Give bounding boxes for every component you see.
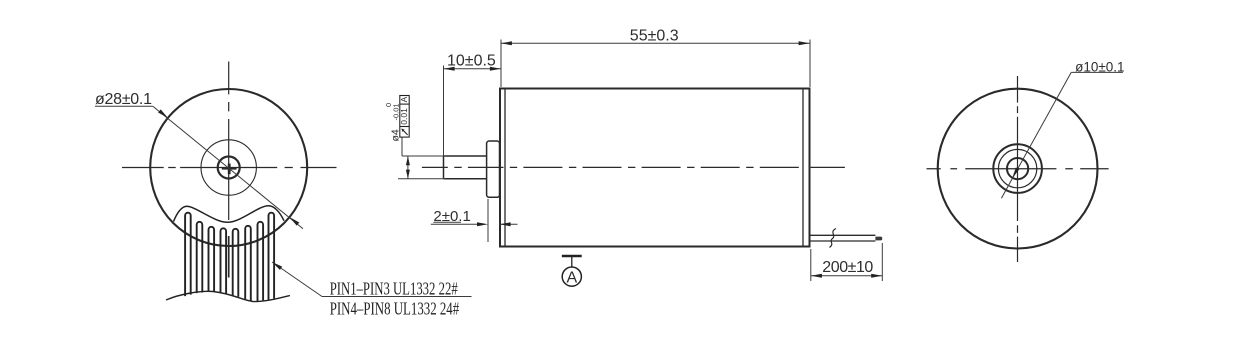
svg-text:0.01: 0.01 — [399, 108, 409, 125]
svg-text:200±10: 200±10 — [822, 259, 873, 276]
svg-text:ø10±0.1: ø10±0.1 — [1075, 60, 1124, 75]
svg-text:10±0.5: 10±0.5 — [447, 52, 496, 69]
svg-text:ø28±0.1: ø28±0.1 — [95, 91, 152, 108]
svg-text:2±0.1: 2±0.1 — [433, 208, 470, 225]
svg-text:PIN4–PIN8 UL1332 24#: PIN4–PIN8 UL1332 24# — [330, 299, 460, 319]
svg-text:A: A — [399, 96, 409, 102]
svg-text:55±0.3: 55±0.3 — [630, 28, 679, 45]
svg-text:A: A — [567, 270, 578, 287]
svg-text:PIN1–PIN3 UL1332 22#: PIN1–PIN3 UL1332 22# — [330, 279, 458, 299]
